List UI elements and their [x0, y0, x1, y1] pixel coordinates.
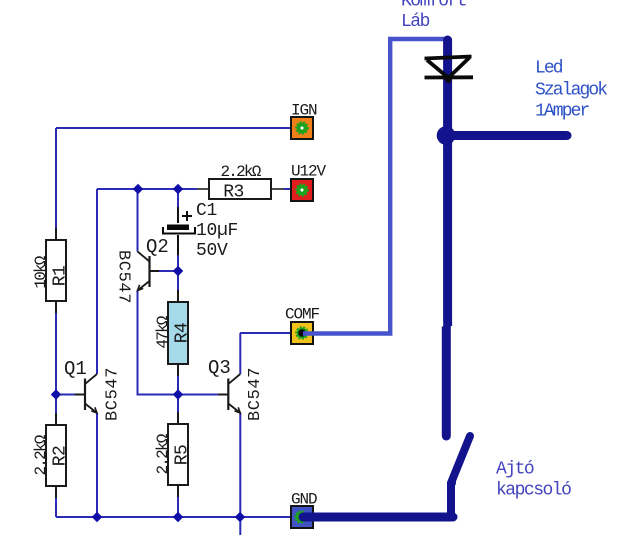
- wire thick navy GND rail: [303, 513, 453, 522]
- pad GND: [291, 506, 313, 528]
- resistor R5: [177, 412, 179, 424]
- svg-text:BC547: BC547: [114, 250, 133, 304]
- svg-text:R4: R4: [173, 323, 193, 343]
- svg-text:Q2: Q2: [146, 236, 169, 258]
- svg-text:R3: R3: [223, 183, 243, 203]
- svg-text:Komfort: Komfort: [401, 0, 466, 12]
- wire switch arm: [451, 436, 470, 483]
- wire Q3 collector vertical: [239, 333, 241, 374]
- svg-text:Q1: Q1: [64, 358, 87, 380]
- node junction Q1 base: [51, 389, 61, 399]
- wire Q1 collector vertical: [96, 189, 98, 374]
- svg-text:Láb: Láb: [401, 12, 430, 32]
- node junction R3-C1: [173, 184, 183, 194]
- svg-text:50V: 50V: [196, 241, 228, 261]
- wire GND rail: [56, 516, 302, 518]
- svg-text:BC547: BC547: [246, 367, 265, 421]
- node thick junction Led branch: [437, 126, 456, 145]
- node junction rail Q1e: [92, 512, 102, 522]
- resistor R2: [55, 413, 57, 425]
- wire Q1 emitter vertical: [96, 413, 98, 517]
- wire C1 R4 R5 vertical: [177, 189, 179, 517]
- svg-text:2.2kΩ: 2.2kΩ: [220, 163, 261, 181]
- wire R3 net horizontal: [97, 188, 209, 190]
- pad U12V: [291, 179, 313, 201]
- capacitor C1: [177, 207, 179, 226]
- wire Q2 emitter to Q3 base: [138, 291, 219, 395]
- svg-text:COMF: COMF: [285, 306, 320, 324]
- wire thick navy Komfort Lab vertical: [443, 40, 452, 326]
- svg-text:47kΩ: 47kΩ: [154, 315, 172, 348]
- wire thick navy Led branch: [446, 131, 567, 140]
- svg-text:10kΩ: 10kΩ: [32, 255, 50, 288]
- svg-text:Q3: Q3: [208, 357, 231, 379]
- svg-text:IGN: IGN: [291, 102, 317, 120]
- node junction R4-R5-Q3base: [173, 389, 183, 399]
- svg-text:U12V: U12V: [291, 163, 327, 181]
- node junction C1-Q2base: [173, 266, 183, 276]
- transistor Q2: [150, 270, 160, 272]
- node junction R3-Q2: [133, 184, 143, 194]
- svg-text:1Amper: 1Amper: [535, 102, 590, 122]
- wire COMF net horizontal: [240, 332, 302, 334]
- wire IGN net horizontal: [56, 127, 302, 129]
- wire switch to rail vertical: [447, 483, 455, 514]
- svg-text:2.2kΩ: 2.2kΩ: [154, 433, 172, 474]
- svg-text:GND: GND: [291, 491, 317, 509]
- svg-text:R2: R2: [51, 446, 71, 466]
- resistor R3: [197, 188, 209, 190]
- resistor R1: [55, 228, 57, 240]
- svg-text:Szalagok: Szalagok: [535, 81, 607, 101]
- diode hand-drawn: [425, 57, 472, 59]
- pad IGN: [291, 117, 313, 139]
- wire Q1 base: [56, 394, 75, 396]
- transistor Q1: [75, 394, 85, 396]
- svg-text:BC547: BC547: [104, 367, 123, 421]
- wire Q3 emitter vertical: [239, 413, 241, 535]
- svg-text:10µF: 10µF: [196, 221, 238, 241]
- wire Q2 base: [159, 270, 178, 272]
- svg-text:2.2kΩ: 2.2kΩ: [32, 434, 50, 475]
- svg-text:Ajtó: Ajtó: [496, 460, 534, 480]
- svg-text:C1: C1: [196, 201, 217, 221]
- node junction rail Q3e: [235, 512, 245, 522]
- wire IGN net left vertical through R1 R2: [55, 128, 57, 517]
- pad COMF: [291, 322, 313, 344]
- svg-text:R1: R1: [51, 266, 71, 286]
- svg-text:Led: Led: [535, 59, 563, 79]
- wire Q2 collector vertical: [137, 189, 139, 252]
- svg-text:R5: R5: [173, 445, 193, 465]
- wire COMF thick medium blue to Komfort Lab: [303, 39, 448, 334]
- svg-text:kapcsoló: kapcsoló: [496, 481, 571, 501]
- node junction rail R5: [173, 512, 183, 522]
- wire U12V stub: [271, 188, 302, 190]
- resistor R4 highlighted: [177, 290, 179, 302]
- transistor Q3: [218, 394, 228, 396]
